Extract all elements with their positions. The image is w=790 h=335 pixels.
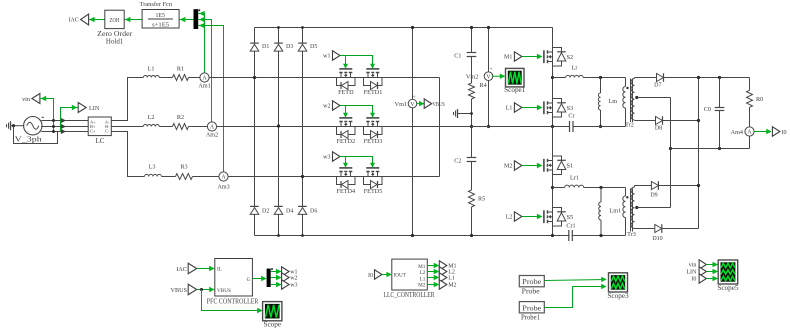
svg-text:IL: IL [217,266,222,272]
svg-text:s+1E5: s+1E5 [152,22,169,28]
svg-text:Tr3: Tr3 [627,231,636,238]
svg-text:L1: L1 [148,65,155,72]
svg-text:L2: L2 [148,114,155,121]
svg-text:vin: vin [689,263,697,269]
svg-text:R4: R4 [480,82,487,89]
svg-text:w2: w2 [323,104,330,110]
svg-text:ZOH: ZOH [110,17,120,24]
svg-text:C-: C- [105,129,110,134]
svg-text:L1: L1 [448,276,455,282]
svg-text:FETD3: FETD3 [364,138,383,145]
svg-text:M1: M1 [504,55,512,61]
svg-text:L2: L2 [420,270,426,276]
svg-text:FETD2: FETD2 [337,138,356,145]
svg-text:Lm: Lm [609,98,618,105]
svg-text:LC: LC [96,137,105,145]
svg-text:FETD: FETD [338,89,354,96]
svg-text:Am4: Am4 [731,129,743,136]
svg-text:Scope5: Scope5 [717,284,739,292]
svg-text:FETD1: FETD1 [364,89,383,96]
svg-text:C0: C0 [704,106,711,113]
svg-text:M2: M2 [448,283,456,289]
svg-text:R3: R3 [180,164,187,171]
svg-text:M2: M2 [418,282,426,288]
svg-text:+: + [412,94,415,100]
svg-text:I0: I0 [368,273,373,279]
svg-text:FETD5: FETD5 [364,188,383,195]
svg-text:VBUS: VBUS [433,102,445,108]
svg-text:Hold1: Hold1 [106,39,124,46]
svg-text:D10: D10 [652,236,662,242]
svg-text:L1: L1 [506,106,513,112]
svg-text:vin: vin [22,96,30,103]
svg-text:LIN: LIN [89,105,100,112]
svg-text:S5: S5 [567,214,574,221]
svg-text:I0: I0 [782,130,787,136]
svg-text:D1: D1 [262,44,269,50]
svg-text:Vm1: Vm1 [395,101,407,108]
svg-text:R0: R0 [756,96,763,103]
svg-text:Am1: Am1 [198,83,210,90]
svg-text:G: G [247,277,251,283]
svg-text:R2: R2 [177,114,184,121]
svg-text:S2: S2 [567,54,574,61]
svg-text:w2: w2 [290,276,297,282]
svg-text:D4: D4 [286,208,293,214]
svg-text:Am2: Am2 [206,131,218,138]
svg-text:L2: L2 [506,215,513,221]
svg-text:D3: D3 [286,44,293,50]
svg-text:Probe1: Probe1 [521,314,540,322]
svg-text:VBUS: VBUS [170,287,187,294]
svg-text:C+: C+ [90,129,96,134]
svg-text:Am3: Am3 [217,183,229,190]
svg-text:Scope3: Scope3 [607,292,629,300]
svg-text:D7: D7 [654,83,661,89]
svg-text:C2: C2 [454,158,461,165]
svg-text:Lr1: Lr1 [570,175,579,182]
svg-text:I0: I0 [691,277,696,283]
svg-text:Cr1: Cr1 [566,223,575,230]
svg-text:Transfer Fcn: Transfer Fcn [140,1,173,8]
svg-text:Probe: Probe [522,278,541,286]
svg-text:IOUT: IOUT [394,273,407,279]
svg-text:S3: S3 [567,105,574,112]
svg-text:L3: L3 [149,164,156,171]
svg-text:R5: R5 [478,196,485,203]
svg-text:L1: L1 [420,276,426,282]
svg-text:D8: D8 [655,126,662,132]
svg-text:w1: w1 [323,54,330,60]
svg-text:Cr: Cr [568,113,574,120]
svg-text:D6: D6 [310,208,317,214]
svg-text:R1: R1 [177,65,184,72]
svg-text:+: + [489,67,492,73]
svg-text:M2: M2 [504,164,512,170]
svg-text:Vm2: Vm2 [466,74,478,81]
svg-text:Scope: Scope [263,321,281,329]
svg-text:PFC CONTROLLER: PFC CONTROLLER [207,299,259,306]
svg-text:LIN: LIN [686,270,697,276]
svg-text:LLC_CONTROLLER: LLC_CONTROLLER [384,292,435,299]
svg-text:Scope1: Scope1 [504,86,526,94]
svg-text:D5: D5 [310,44,317,50]
svg-text:D9: D9 [650,192,657,198]
svg-text:Probe: Probe [522,288,540,296]
svg-text:FETD4: FETD4 [337,188,356,195]
svg-text:IAC: IAC [176,266,187,273]
svg-text:Probe: Probe [522,304,541,312]
svg-text:w3: w3 [323,155,330,161]
svg-text:V_3ph: V_3ph [15,137,43,144]
svg-text:1E5: 1E5 [155,13,165,19]
svg-text:Tr2: Tr2 [625,122,634,129]
svg-text:VBUS: VBUS [217,288,231,294]
svg-text:IAC: IAC [68,18,78,24]
svg-text:C1: C1 [454,53,461,60]
svg-text:Lr: Lr [572,65,578,72]
svg-text:w3: w3 [290,283,297,289]
svg-text:D2: D2 [262,208,269,214]
svg-text:Lm1: Lm1 [610,208,622,215]
svg-text:S1: S1 [567,163,574,170]
svg-text:Zero Order: Zero Order [97,31,133,38]
